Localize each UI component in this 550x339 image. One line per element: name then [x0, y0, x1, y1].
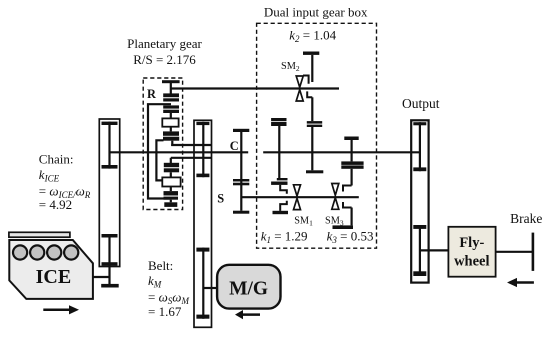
- svg-text:R: R: [147, 87, 157, 101]
- svg-text:S: S: [217, 192, 224, 206]
- svg-text:Dual input gear box: Dual input gear box: [264, 5, 368, 20]
- svg-text:Brake: Brake: [510, 211, 542, 226]
- svg-text:= 1.67: = 1.67: [148, 304, 182, 319]
- svg-text:R/S = 2.176: R/S = 2.176: [133, 52, 196, 67]
- svg-text:ICE: ICE: [36, 266, 72, 288]
- svg-text:Fly-: Fly-: [459, 235, 484, 251]
- svg-text:= 4.92: = 4.92: [39, 197, 72, 212]
- svg-text:Output: Output: [402, 96, 440, 111]
- svg-text:Planetary gear: Planetary gear: [127, 36, 202, 51]
- svg-text:C: C: [230, 139, 239, 153]
- svg-text:Belt:: Belt:: [148, 258, 173, 273]
- svg-text:wheel: wheel: [454, 253, 489, 269]
- svg-text:M/G: M/G: [229, 279, 268, 300]
- svg-text:Chain:: Chain:: [39, 152, 74, 167]
